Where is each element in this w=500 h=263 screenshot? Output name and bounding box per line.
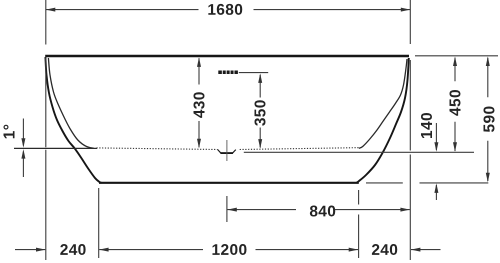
svg-text:450: 450 (448, 89, 465, 116)
tub right inner wall (359, 59, 407, 148)
extension line x359 tub bottom right (358, 190, 360, 258)
arrow 1200 left (99, 248, 109, 252)
arrow 430 down (197, 139, 201, 149)
arrow 140 up (434, 183, 438, 193)
svg-text:1°: 1° (2, 124, 19, 140)
extension line left x46 (45, 0, 47, 260)
svg-text:1200: 1200 (212, 242, 248, 259)
inner bottom sloped line right of drain (240, 148, 362, 150)
tub left inner wall (48, 58, 93, 148)
dim line 350 (259, 75, 261, 148)
svg-text:240: 240 (60, 242, 87, 259)
dim line 1 degree (22, 119, 24, 178)
svg-text:840: 840 (309, 203, 336, 220)
arrow 590 down (486, 173, 490, 183)
arrow 1200 right (349, 248, 359, 252)
extension line x99 tub bottom left (98, 188, 100, 258)
svg-text:430: 430 (191, 91, 208, 118)
arrow 1680 right (401, 8, 411, 12)
arrow 1680 left (46, 8, 56, 12)
arrow 240L outside right (36, 248, 46, 252)
dim line 140 (435, 123, 437, 200)
svg-text:1680: 1680 (207, 2, 243, 19)
arrow 430 up (197, 57, 201, 67)
arrow 450 down (453, 142, 457, 152)
dim line 590 (487, 58, 489, 181)
arrow 840 left (227, 208, 237, 212)
tub left outer wall (45, 57, 101, 183)
arrow 350 up (258, 73, 262, 83)
horizontal reference line for 1 degree slope (14, 147, 97, 149)
tick line right side top (415, 55, 498, 57)
inner bottom sloped line left of drain (97, 148, 218, 150)
dim line 430 (198, 58, 200, 147)
tick line 350 top (239, 72, 268, 74)
extension line drain center for 840 (226, 196, 228, 222)
arrow 590 up (486, 57, 490, 67)
arrow 450 up (453, 57, 457, 67)
arrow 1deg up (21, 149, 25, 159)
dim line bottom 240-1200-240 (15, 249, 441, 251)
svg-text:140: 140 (419, 112, 436, 139)
tub rim top line (45, 55, 409, 57)
arrow 840 right (400, 208, 410, 212)
dimension line 1680 (46, 9, 411, 11)
arrow 1deg down (21, 138, 25, 148)
svg-text:590: 590 (481, 106, 498, 133)
drain outline (218, 150, 236, 153)
arrow 240R outside left (411, 248, 421, 252)
svg-text:350: 350 (253, 99, 270, 126)
drain centerline (226, 140, 228, 161)
svg-text:240: 240 (371, 242, 398, 259)
reference line sump level y152 (244, 151, 474, 153)
reference line floor level y183 (366, 182, 488, 184)
arrow 140 down (434, 142, 438, 152)
dim line 450 (454, 58, 456, 151)
dim line 840 (227, 209, 410, 211)
tub outer bottom (99, 182, 359, 184)
arrow 350 down (258, 139, 262, 149)
overflow symbol (218, 71, 238, 75)
extension line right x410 (409, 0, 411, 260)
tub right outer wall (357, 58, 409, 183)
